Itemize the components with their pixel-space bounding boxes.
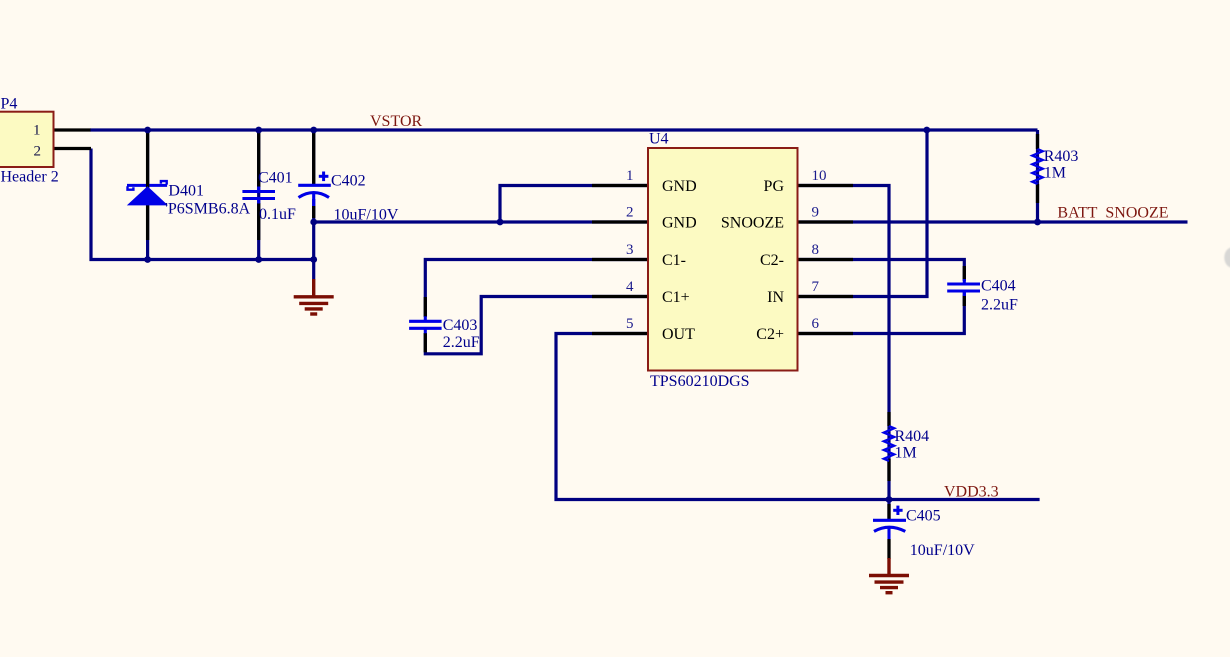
svg-text:VSTOR: VSTOR xyxy=(370,113,422,130)
svg-text:TPS60210DGS: TPS60210DGS xyxy=(650,373,750,390)
svg-text:VDD3.3: VDD3.3 xyxy=(944,484,999,501)
svg-text:C2+: C2+ xyxy=(756,326,784,343)
svg-text:C2-: C2- xyxy=(760,252,784,269)
svg-text:C402: C402 xyxy=(331,173,366,190)
svg-text:3: 3 xyxy=(626,242,634,258)
svg-text:6: 6 xyxy=(812,316,820,332)
svg-text:IN: IN xyxy=(767,289,784,306)
svg-text:2: 2 xyxy=(34,143,42,159)
svg-text:8: 8 xyxy=(812,242,820,258)
svg-text:P4: P4 xyxy=(1,96,18,113)
svg-text:Header 2: Header 2 xyxy=(1,168,59,185)
svg-text:1M: 1M xyxy=(895,445,917,462)
svg-text:C403: C403 xyxy=(443,317,478,334)
svg-text:0.1uF: 0.1uF xyxy=(259,206,296,223)
svg-text:7: 7 xyxy=(812,279,820,295)
svg-text:1M: 1M xyxy=(1044,165,1066,182)
svg-text:OUT: OUT xyxy=(662,326,695,343)
svg-text:D401: D401 xyxy=(168,183,204,200)
svg-text:SNOOZE: SNOOZE xyxy=(721,214,784,231)
svg-text:2.2uF: 2.2uF xyxy=(981,296,1018,313)
svg-text:C1-: C1- xyxy=(662,252,686,269)
svg-text:C401: C401 xyxy=(258,169,293,186)
svg-text:R403: R403 xyxy=(1044,148,1079,165)
svg-text:GND: GND xyxy=(662,214,697,231)
svg-text:9: 9 xyxy=(812,205,820,221)
svg-text:C404: C404 xyxy=(981,277,1016,294)
svg-text:1: 1 xyxy=(33,122,41,138)
svg-text:10uF/10V: 10uF/10V xyxy=(334,207,399,224)
svg-text:10: 10 xyxy=(812,168,827,184)
svg-text:C405: C405 xyxy=(906,508,941,525)
svg-text:R404: R404 xyxy=(895,428,930,445)
svg-text:C1+: C1+ xyxy=(662,289,690,306)
svg-text:'P6SMB6.8A: 'P6SMB6.8A xyxy=(165,200,251,217)
svg-text:GND: GND xyxy=(662,178,697,195)
svg-text:4: 4 xyxy=(626,279,634,295)
svg-text:10uF/10V: 10uF/10V xyxy=(910,542,975,559)
svg-text:5: 5 xyxy=(626,316,634,332)
svg-text:2: 2 xyxy=(626,205,634,221)
svg-text:PG: PG xyxy=(764,178,785,195)
svg-text:2.2uF: 2.2uF xyxy=(443,334,480,351)
svg-text:1: 1 xyxy=(626,168,634,184)
svg-text:U4: U4 xyxy=(649,131,669,148)
svg-text:BATT SNOOZE: BATT SNOOZE xyxy=(1057,204,1168,221)
